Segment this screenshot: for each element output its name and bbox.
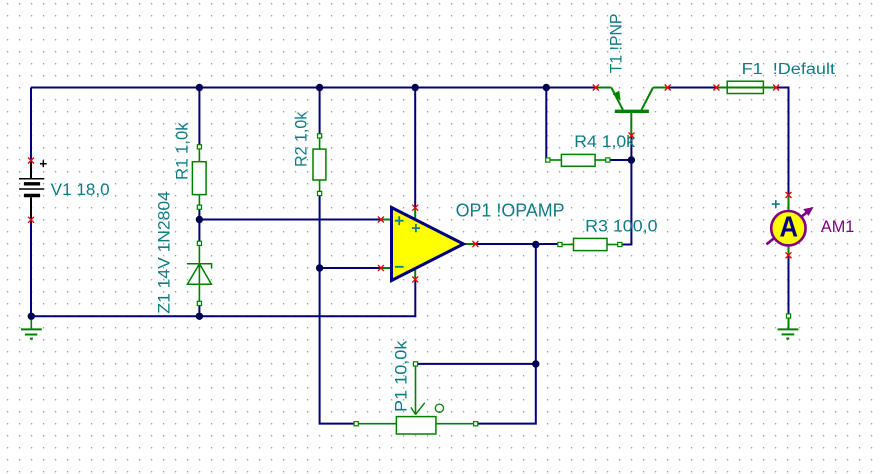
svg-text:F1 !Default: F1 !Default (742, 61, 836, 78)
svg-text:A: A (779, 211, 798, 243)
svg-text:Z1 14V 1N2804: Z1 14V 1N2804 (154, 191, 173, 313)
svg-text:R4 1,0k: R4 1,0k (574, 132, 635, 151)
svg-text:R1 1,0k: R1 1,0k (172, 122, 191, 180)
svg-text:AM1: AM1 (821, 217, 854, 236)
svg-text:V1 18,0: V1 18,0 (51, 180, 110, 199)
svg-text:R3 100,0: R3 100,0 (585, 216, 657, 235)
svg-text:T1 !PNP: T1 !PNP (607, 14, 626, 74)
svg-text:R2 1,0k: R2 1,0k (292, 111, 311, 167)
svg-text:P1 10,0k: P1 10,0k (391, 340, 410, 412)
svg-text:OP1 !OPAMP: OP1 !OPAMP (456, 200, 565, 220)
